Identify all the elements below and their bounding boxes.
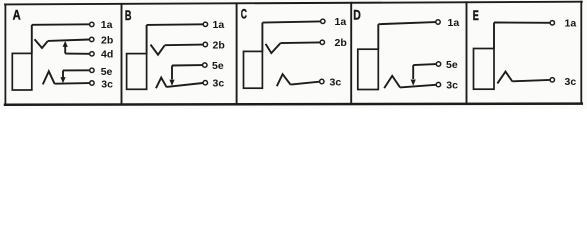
coil K-B — [127, 54, 147, 90]
arrowhead up A — [63, 41, 68, 47]
divider B|C — [236, 3, 238, 104]
svg-text:1a: 1a — [448, 17, 460, 29]
divider C|D — [350, 3, 352, 104]
terminal 3c A — [90, 81, 94, 85]
wire 1a E — [494, 22, 550, 24]
contact chevron V A — [35, 39, 48, 48]
terminal 3c D — [436, 82, 440, 86]
svg-text:3c: 3c — [330, 76, 342, 88]
svg-text:3c: 3c — [565, 76, 577, 88]
svg-text:C: C — [241, 6, 247, 22]
wire arrow stem down A — [62, 70, 64, 78]
contact hump E — [497, 72, 512, 84]
arrowhead down B — [169, 80, 174, 86]
outer frame top border — [5, 2, 582, 5]
terminal 1a D — [436, 20, 440, 24]
coil K-C — [244, 51, 263, 88]
wire 1a B — [147, 23, 203, 26]
terminal 2b B — [203, 42, 207, 46]
wire stem B — [146, 25, 148, 54]
svg-text:1a: 1a — [565, 18, 577, 30]
terminal 1a A — [90, 22, 94, 26]
wire stem D — [377, 24, 379, 49]
terminal 1a E — [550, 21, 554, 25]
terminal 5e D — [436, 62, 440, 66]
svg-text:A: A — [13, 6, 21, 22]
svg-text:3c: 3c — [101, 79, 113, 91]
contact hump A — [43, 71, 55, 84]
contact chevron V C — [266, 43, 281, 53]
wire 5e B — [172, 64, 202, 66]
svg-text:2b: 2b — [213, 39, 225, 51]
outer frame bottom border — [5, 104, 582, 105]
terminal 5e A — [90, 68, 94, 72]
wire arrow stem down B — [171, 66, 173, 80]
terminal 1a B — [203, 22, 207, 26]
coil K-A — [12, 53, 32, 90]
svg-text:1a: 1a — [213, 19, 225, 31]
wire 5e D — [413, 64, 436, 65]
svg-text:E: E — [473, 7, 479, 23]
terminal 1a C — [321, 19, 325, 23]
wire stem C — [261, 23, 263, 52]
svg-text:2b: 2b — [101, 34, 113, 46]
svg-text:D: D — [353, 7, 361, 23]
wire 1a A — [32, 23, 89, 26]
svg-text:2b: 2b — [335, 37, 347, 49]
terminal 3c E — [550, 78, 554, 82]
wire 3c E — [512, 80, 549, 81]
terminal 3c C — [320, 79, 324, 83]
svg-text:5e: 5e — [101, 66, 113, 78]
wire 1a D — [378, 22, 435, 24]
outer frame left border — [4, 4, 6, 104]
contact hump B — [156, 78, 167, 89]
divider A|B — [121, 4, 123, 105]
wire arrow stem up A — [64, 46, 66, 54]
contact hump C — [277, 74, 291, 86]
wire 4d A — [65, 53, 89, 55]
terminal 2b C — [320, 40, 324, 44]
coil K-D — [358, 49, 379, 89]
wire 3c A — [55, 82, 90, 85]
wire 2b B — [165, 44, 203, 47]
svg-text:3c: 3c — [213, 78, 225, 90]
wire arrow stem down D — [412, 65, 414, 79]
arrowhead down D — [411, 80, 416, 86]
svg-text:1a: 1a — [335, 16, 347, 28]
svg-text:B: B — [125, 7, 132, 23]
contact hump D — [384, 76, 400, 88]
outer frame right border — [580, 2, 582, 104]
svg-text:5e: 5e — [212, 60, 224, 72]
svg-text:5e: 5e — [446, 59, 458, 71]
svg-text:1a: 1a — [101, 19, 113, 31]
terminal 5e B — [203, 63, 207, 67]
wire 3c C — [291, 82, 320, 85]
wire stem A — [31, 25, 33, 54]
svg-text:4d: 4d — [101, 49, 113, 61]
arrowhead down A — [60, 77, 65, 83]
contact chevron V B — [151, 45, 165, 55]
terminal 3c B — [203, 81, 207, 85]
wire stem E — [493, 23, 495, 49]
wire 3c B — [167, 83, 203, 87]
wire 2b A — [48, 40, 89, 41]
terminal 2b A — [90, 37, 94, 41]
wire 3c D — [400, 85, 436, 88]
divider D|E — [466, 2, 468, 104]
svg-text:3c: 3c — [446, 79, 458, 91]
wire 2b C — [280, 41, 320, 44]
wire 1a C — [262, 21, 320, 22]
coil K-E — [474, 49, 495, 90]
wire 5e A — [63, 69, 89, 71]
terminal 4d A — [90, 52, 94, 56]
